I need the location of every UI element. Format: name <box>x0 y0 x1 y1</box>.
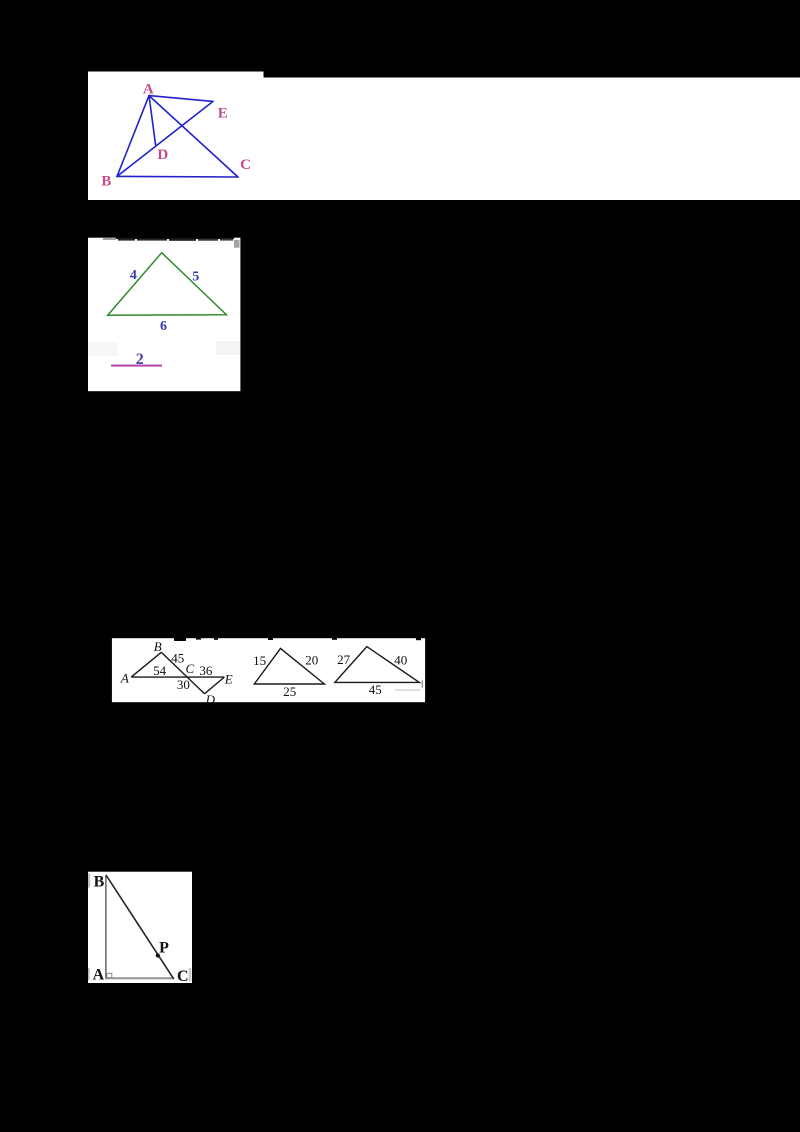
wire B-C <box>117 175 238 178</box>
svg-text:30: 30 <box>177 677 190 692</box>
wire B-C hypotenuse <box>106 875 174 979</box>
triangle 4-5-6 <box>108 253 227 316</box>
right angle mark at A <box>107 973 112 977</box>
svg-text:D: D <box>205 692 216 703</box>
svg-text:C: C <box>185 661 194 676</box>
wire B-D through C <box>161 652 204 694</box>
figure box 4: right triangle ABC with P <box>88 871 192 983</box>
faint remnant row bottom right <box>395 689 420 691</box>
svg-text:A: A <box>143 82 154 98</box>
edge tick <box>421 680 423 687</box>
svg-text:B: B <box>94 873 105 890</box>
svg-text:5: 5 <box>192 269 199 284</box>
cropped text smudge <box>103 238 233 241</box>
wire A-C bottom <box>106 977 174 979</box>
wire D-E <box>205 677 225 694</box>
point P dot <box>156 953 160 957</box>
svg-text:27: 27 <box>337 652 351 667</box>
gray edge ticks <box>88 874 90 888</box>
wire A-C <box>149 96 238 177</box>
figure box 1: blue quadrilateral diagram, white band <box>88 71 800 200</box>
answer underline <box>111 365 162 367</box>
svg-text:P: P <box>159 940 169 957</box>
svg-text:D: D <box>157 147 168 163</box>
svg-text:B: B <box>154 639 162 654</box>
wire B-E <box>117 101 213 176</box>
svg-text:A: A <box>93 967 105 983</box>
svg-text:C: C <box>177 968 189 983</box>
svg-text:25: 25 <box>283 684 296 699</box>
wire A-E through C <box>131 676 224 678</box>
black band over top <box>116 237 234 239</box>
triangle 15-20-25 <box>254 648 324 684</box>
svg-text:40: 40 <box>394 653 407 668</box>
svg-text:B: B <box>101 174 111 190</box>
svg-text:C: C <box>240 157 251 173</box>
figure box 2: green triangle 4-5-6 <box>88 237 241 392</box>
svg-text:45: 45 <box>171 651 184 666</box>
figure box 3: three black triangles <box>111 635 426 703</box>
faint page smudges <box>88 342 118 356</box>
wire A-E <box>149 96 213 102</box>
svg-text:4: 4 <box>130 268 137 283</box>
svg-text:15: 15 <box>253 653 266 668</box>
svg-text:E: E <box>218 106 228 122</box>
gray corner square <box>234 240 240 248</box>
svg-text:45: 45 <box>369 682 382 697</box>
cropped text smudge (black teeth along top edge) <box>174 638 421 641</box>
white background band with top-left tab <box>88 72 800 201</box>
wire A-D <box>149 96 156 145</box>
wire A-B <box>131 652 161 677</box>
svg-text:20: 20 <box>305 653 318 668</box>
svg-text:36: 36 <box>199 663 213 678</box>
wire A-B vertical <box>105 875 107 979</box>
triangle 27-40-45 <box>335 647 420 683</box>
svg-text:6: 6 <box>160 319 167 334</box>
svg-text:E: E <box>224 672 233 687</box>
svg-text:A: A <box>120 670 129 685</box>
wire A-B <box>117 96 149 177</box>
svg-text:54: 54 <box>153 663 167 678</box>
